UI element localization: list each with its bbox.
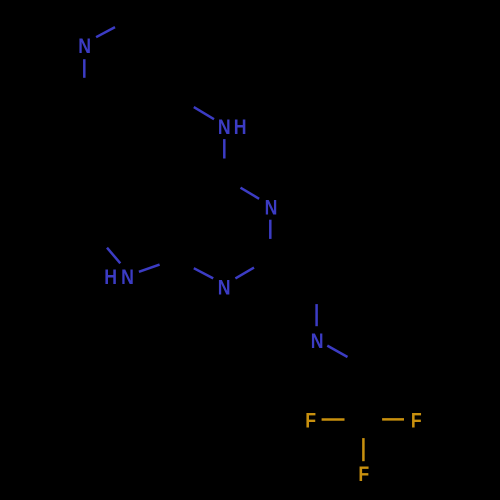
wire: pyridine-B C2-N1 bond (nitrogen half) (315, 304, 318, 326)
svg-text:F: F (411, 409, 422, 433)
svg-text:F: F (305, 409, 316, 433)
wire: pyrimidine C4-N3 bond (nitrogen half) (241, 188, 260, 199)
wire: C-F bond to bottom fluorine (fluorine half) (362, 438, 365, 461)
svg-text:N: N (218, 276, 231, 300)
svg-text:N: N (121, 266, 134, 290)
svg-text:N: N (311, 330, 324, 354)
svg-text:H: H (104, 266, 117, 290)
wire: pyrrole N7-C6 bond (nitrogen half) (107, 248, 120, 264)
wire: pyrimidine C2-N1 bond (nitrogen half) (235, 268, 254, 279)
node: secondary amine label NH (H glyph) (234, 115, 247, 139)
wire: C-F bond to right fluorine (fluorine half) (382, 418, 404, 421)
wire: C-F bond to left fluorine (fluorine half) (322, 418, 345, 421)
node: pyridine-B ring nitrogen label N (311, 330, 324, 354)
node: pyridine-A ring nitrogen label N (78, 34, 91, 58)
node: pyrrole N7 label HN (H glyph) (104, 266, 117, 290)
svg-text:N: N (218, 115, 231, 139)
node: right fluorine label F (411, 409, 422, 433)
wire: pyridine-A N1-C2 bond (nitrogen half) (96, 27, 115, 37)
node: secondary amine label NH (N glyph) (218, 115, 231, 139)
node: pyrrole N7 label HN (N glyph) (121, 266, 134, 290)
node: pyrimidine N1 nitrogen label N (218, 276, 231, 300)
wire: pyridine-A N1-C6 bond (nitrogen half) (83, 59, 86, 78)
svg-text:H: H (234, 115, 247, 139)
wire: pyridine-A C4 to amine NH bond (nitrogen half) (194, 107, 214, 119)
node: left fluorine label F (305, 409, 316, 433)
node: pyrimidine N3 nitrogen label N (265, 196, 278, 220)
wire: pyrimidine C7a-N1 bond (nitrogen half) (194, 268, 213, 278)
wire: pyridine-B N1-C6 bond (nitrogen half) (327, 346, 347, 357)
svg-text:N: N (265, 196, 278, 220)
svg-text:F: F (358, 462, 369, 486)
svg-text:N: N (78, 34, 91, 58)
node: bottom fluorine label F (358, 462, 369, 486)
wire: amine NH to pyrimidine C4 bond (nitrogen half) (223, 139, 226, 158)
wire: pyrimidine N3-C2 bond (nitrogen half) (269, 220, 272, 239)
wire: pyrrole N7-C7a bond (nitrogen half) (139, 265, 160, 272)
